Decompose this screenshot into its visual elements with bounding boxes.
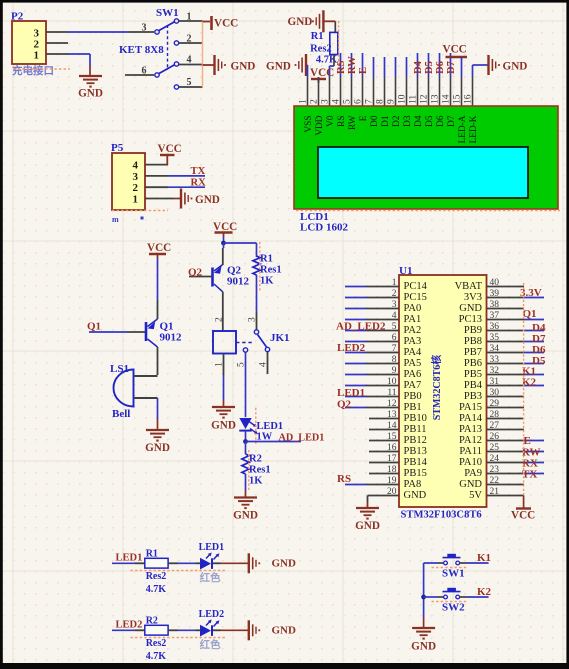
relay JK1 pin 5 number — [237, 362, 247, 367]
pin U1.13 — [369, 410, 399, 420]
svg-text:GND: GND — [272, 557, 297, 569]
junction at Q2 emitter node — [221, 241, 226, 246]
svg-text:LS1: LS1 — [110, 363, 129, 375]
svg-text:GND: GND — [195, 194, 220, 206]
svg-text:35: 35 — [490, 333, 500, 343]
svg-text:AD_LED1: AD_LED1 — [279, 433, 325, 444]
pin U1.4 — [345, 311, 399, 321]
svg-text:D1: D1 — [381, 115, 391, 127]
switch SW1 gang dashed link — [167, 25, 169, 70]
svg-text:4: 4 — [259, 362, 269, 367]
svg-text:13: 13 — [431, 94, 441, 104]
power VCC for Q2 — [213, 221, 237, 237]
LED LED1 red — [200, 553, 219, 570]
net label TX at U1 — [522, 469, 537, 481]
wire LS1 to ground — [157, 398, 159, 430]
svg-text:PA12: PA12 — [459, 435, 482, 446]
svg-text:RS: RS — [336, 60, 347, 74]
pin SW1.3 — [128, 23, 154, 34]
svg-text:LED-K: LED-K — [469, 115, 479, 143]
LCD pin names — [304, 115, 479, 143]
svg-text:D2: D2 — [392, 115, 402, 127]
svg-text:PA8: PA8 — [404, 479, 422, 490]
svg-text:LED2: LED2 — [116, 620, 143, 631]
svg-text:PB7: PB7 — [464, 347, 482, 358]
pin U1.39 — [487, 289, 545, 299]
svg-text:PB12: PB12 — [404, 435, 427, 446]
svg-text:10: 10 — [387, 377, 397, 387]
svg-text:D7: D7 — [447, 115, 457, 127]
svg-text:4: 4 — [332, 99, 342, 104]
svg-text:31: 31 — [490, 377, 500, 387]
resistor R1 Res2 — [330, 32, 338, 54]
svg-text:R1: R1 — [146, 548, 158, 559]
MCU U1 part number — [401, 510, 482, 521]
svg-text:D6: D6 — [436, 115, 446, 127]
pin U1.15 — [369, 432, 399, 442]
pin SW1.4 — [179, 55, 203, 66]
wire P2.1 to ground — [68, 54, 90, 76]
wire K2 right — [460, 596, 489, 598]
relay JK1 blade — [258, 335, 267, 348]
net label K1 at U1 — [522, 366, 536, 378]
svg-text:1: 1 — [133, 194, 139, 206]
pin P5.4 — [145, 164, 168, 166]
svg-text:VCC: VCC — [213, 221, 237, 233]
pin SW1.6 — [125, 66, 154, 77]
net label K1 — [477, 552, 491, 564]
svg-text:19: 19 — [387, 476, 397, 486]
svg-text:PA5: PA5 — [404, 358, 422, 369]
switch SW1 contact 4 — [174, 62, 178, 66]
svg-text:K2: K2 — [522, 377, 537, 389]
switch SW1 contact 5 — [174, 85, 178, 89]
svg-text:LED1: LED1 — [116, 553, 143, 564]
label 4.7K of bottom R1 — [146, 584, 167, 595]
svg-text:GND: GND — [233, 510, 258, 522]
transistor Q2 designator — [227, 265, 250, 288]
pin U1.37 — [487, 311, 545, 321]
pin U1.29 — [487, 399, 525, 409]
wire K1 left — [424, 562, 444, 564]
svg-text:11: 11 — [409, 95, 419, 104]
svg-text:R2: R2 — [249, 454, 262, 465]
wire VCC down to junction — [223, 237, 225, 244]
svg-text:29: 29 — [490, 399, 500, 409]
wire LED2 to ground — [213, 629, 249, 631]
svg-text:23: 23 — [490, 465, 500, 475]
svg-text:9: 9 — [392, 366, 397, 376]
svg-text:3: 3 — [142, 23, 147, 34]
svg-text:RS: RS — [337, 473, 351, 485]
net label D7 at U1 — [532, 333, 546, 345]
svg-text:Q2: Q2 — [337, 399, 352, 411]
wire AD_LED1 — [246, 441, 302, 443]
wire Q2 collector to coil — [222, 292, 224, 331]
transistor Q2 9012 PNP — [213, 265, 223, 292]
net label D4 at LCD — [413, 60, 424, 74]
svg-text:34: 34 — [490, 344, 500, 354]
svg-text:R1: R1 — [260, 254, 273, 265]
pin U1.33 — [487, 355, 545, 365]
svg-text:2: 2 — [133, 182, 139, 194]
selection marker beside R1 1K — [259, 242, 261, 292]
switch SW1 blade top — [159, 22, 175, 31]
svg-text:PC14: PC14 — [404, 281, 428, 292]
label Res2 of R1 — [310, 44, 332, 55]
net label RW at U1 — [522, 447, 541, 459]
net label D5 at LCD — [424, 61, 435, 74]
svg-text:4: 4 — [392, 311, 397, 321]
svg-text:GND: GND — [503, 61, 528, 73]
svg-text:1: 1 — [187, 12, 192, 23]
button SW1 designator — [432, 568, 469, 580]
wire LED1 to ground — [213, 562, 249, 564]
svg-text:2: 2 — [187, 34, 192, 45]
label R1 — [311, 31, 324, 42]
svg-text:LED-A: LED-A — [458, 115, 468, 143]
svg-text:4.7K: 4.7K — [146, 651, 167, 662]
label 充电接口 — [12, 64, 54, 77]
svg-text:PB6: PB6 — [464, 358, 482, 369]
label R1 bottom — [146, 548, 158, 559]
selection marker beside LED1 — [255, 408, 257, 444]
pin P5.3 — [145, 175, 168, 177]
resistor R1 Res2 body — [145, 558, 168, 568]
svg-text:Q1: Q1 — [523, 308, 537, 320]
label Res2 of bottom R1 — [146, 571, 167, 582]
button SW2 designator — [432, 602, 469, 614]
label 4.7K of R1 — [316, 55, 338, 66]
switch SW1 contact 3 — [155, 30, 159, 34]
connector P2 body — [12, 21, 46, 64]
svg-text:RX: RX — [191, 178, 207, 189]
svg-text:18: 18 — [387, 465, 397, 475]
svg-text:LCD 1602: LCD 1602 — [300, 222, 348, 234]
LED LED2 red — [200, 620, 219, 637]
label R2 bottom — [146, 615, 158, 626]
svg-text:3: 3 — [248, 317, 258, 322]
svg-text:GND: GND — [272, 624, 297, 636]
wire LCD pin16 to ground — [473, 65, 488, 77]
svg-text:LED2: LED2 — [337, 342, 366, 354]
svg-text:3V3: 3V3 — [464, 292, 482, 303]
switch SW1 contact 6 — [155, 73, 159, 77]
svg-text:红色: 红色 — [200, 638, 221, 651]
pin U1.1 — [345, 278, 399, 288]
svg-text:PA0: PA0 — [404, 303, 422, 314]
ground GND at LCD pin1 — [266, 54, 308, 76]
svg-text:D5: D5 — [425, 115, 435, 127]
pin U1.12 — [345, 399, 399, 409]
ground GND under LS1 — [145, 430, 170, 454]
svg-text:VDD: VDD — [315, 115, 325, 135]
pin P5.2 — [145, 186, 168, 188]
relay JK1 pin 3 number — [248, 317, 258, 322]
wire RX from P5.2 — [168, 186, 205, 188]
svg-text:30: 30 — [490, 388, 500, 398]
svg-text:3: 3 — [321, 99, 331, 104]
svg-text:16: 16 — [387, 443, 397, 453]
net label E at U1 — [524, 435, 531, 447]
switch SW1 designator — [156, 7, 179, 19]
pin U1.25 — [487, 443, 545, 453]
svg-text:VCC: VCC — [511, 510, 535, 522]
wire LED1 to node — [245, 431, 247, 442]
svg-text:25: 25 — [490, 443, 500, 453]
svg-text:PA14: PA14 — [459, 413, 483, 424]
wire LCD VSS — [307, 65, 309, 77]
diode LED1 designator — [257, 421, 284, 443]
svg-text:5: 5 — [392, 322, 397, 332]
relay JK1 coil pin 1 number — [215, 362, 225, 367]
net label D6 at U1 — [532, 344, 546, 356]
pin JK1.4 — [259, 352, 269, 374]
pin LS1.2 — [134, 397, 158, 399]
pin U1.30 — [487, 388, 525, 398]
svg-text:TX: TX — [522, 469, 537, 481]
connector P5 body — [112, 153, 145, 210]
pin U1.22 — [487, 476, 525, 486]
pin U1.21 — [487, 487, 525, 497]
svg-text:VCC: VCC — [147, 242, 171, 254]
label LCD 1602 — [300, 222, 348, 234]
svg-text:2: 2 — [310, 99, 320, 104]
wire TX from P5.3 — [168, 175, 205, 177]
ground GND at LED1 — [249, 553, 296, 573]
svg-text:PB3: PB3 — [464, 391, 482, 402]
svg-text:PB15: PB15 — [404, 468, 427, 479]
svg-text:14: 14 — [442, 94, 452, 104]
net label E at LCD — [358, 67, 369, 74]
svg-text:2: 2 — [215, 317, 225, 322]
wire R2 to LED2 — [168, 629, 200, 631]
label Res1 of R1 — [260, 265, 282, 276]
ground GND under P2 — [78, 76, 103, 100]
svg-text:GND: GND — [145, 442, 170, 454]
wire Q1 collector to LS1 — [157, 347, 159, 375]
svg-text:TX: TX — [191, 166, 206, 177]
svg-text:RS: RS — [337, 116, 347, 127]
wire coil to ground — [223, 354, 225, 407]
svg-text:1: 1 — [392, 278, 397, 288]
pin U1.11 — [345, 388, 399, 398]
net label Q2 — [188, 267, 203, 279]
LED LED1 designator — [199, 542, 225, 553]
pin U1.6 — [345, 333, 399, 343]
svg-text:PB1: PB1 — [404, 402, 422, 413]
wire junction to R1 1K — [224, 243, 257, 257]
svg-text:26: 26 — [490, 432, 500, 442]
pin U1.26 — [487, 432, 545, 442]
wire R1 to relay contact 3 — [256, 275, 258, 330]
svg-text:GND: GND — [404, 490, 427, 501]
svg-text:GND: GND — [211, 420, 236, 432]
power VCC at P5.4 — [158, 143, 182, 165]
svg-text:D6: D6 — [435, 61, 446, 74]
svg-text:PB10: PB10 — [404, 413, 427, 424]
svg-text:E: E — [358, 67, 369, 74]
svg-text:STM32C8T6核: STM32C8T6核 — [430, 355, 443, 421]
svg-text:5V: 5V — [469, 490, 482, 501]
svg-text:E: E — [524, 435, 531, 447]
net label TX at P5 — [191, 166, 206, 177]
ground GND under buttons — [411, 628, 436, 653]
power GND at SW1.4 — [203, 55, 256, 75]
net label Q1 wire — [89, 331, 146, 333]
svg-text:GND: GND — [288, 16, 313, 28]
svg-text:14: 14 — [387, 421, 397, 431]
pin U1.8 — [345, 355, 399, 365]
svg-text:4: 4 — [187, 55, 192, 66]
junction AD_LED1 node — [243, 439, 248, 444]
svg-text:7: 7 — [392, 344, 397, 354]
net label LED2 wire — [112, 629, 145, 631]
MCU U1 core label — [430, 355, 443, 421]
connector P5 pin numbers — [133, 160, 139, 206]
svg-text:V0: V0 — [326, 115, 336, 127]
svg-text:AD_LED2: AD_LED2 — [336, 321, 386, 333]
connector P2 designator — [11, 11, 24, 23]
label R2 — [249, 454, 262, 465]
svg-text:PA15: PA15 — [459, 402, 482, 413]
wire GND bus vertical — [423, 563, 425, 628]
svg-text:Res1: Res1 — [249, 465, 271, 476]
relay JK1 coil — [213, 331, 236, 354]
pin U1.20 — [368, 487, 400, 497]
label 红色 of LED2 — [200, 638, 221, 651]
net label D5 at U1 — [532, 355, 546, 367]
wire relay 5 to LED1 — [245, 353, 247, 418]
svg-text:Res2: Res2 — [310, 44, 332, 55]
svg-text:Q2: Q2 — [188, 267, 203, 279]
svg-text:Res1: Res1 — [260, 265, 282, 276]
svg-text:SW2: SW2 — [442, 602, 465, 614]
net label Q2 wire — [189, 276, 213, 278]
ground GND at LED2 — [249, 620, 296, 640]
svg-text:D5: D5 — [424, 61, 435, 74]
svg-text:PA13: PA13 — [459, 424, 482, 435]
net label Q2 at U1 — [337, 399, 352, 411]
wire K2 left — [424, 596, 444, 598]
svg-text:24: 24 — [490, 454, 500, 464]
pin U1.28 — [487, 410, 525, 420]
svg-text:D4: D4 — [414, 115, 424, 127]
label 1K of R1 — [260, 276, 274, 287]
svg-text:8: 8 — [392, 355, 397, 365]
label 1K of R2 — [249, 476, 263, 487]
power VCC at SW1.1 — [203, 16, 239, 30]
pin U1.9 — [345, 366, 399, 376]
svg-text:4.7K: 4.7K — [146, 584, 167, 595]
label Res1 of R2 — [249, 465, 271, 476]
svg-text:15: 15 — [387, 432, 397, 442]
speaker LS1 designator — [110, 363, 129, 375]
pin P2.3 — [46, 31, 68, 33]
svg-text:9: 9 — [387, 99, 397, 104]
label KET 8X8 — [119, 44, 164, 56]
svg-text:36: 36 — [490, 322, 500, 332]
svg-text:PC13: PC13 — [459, 314, 482, 325]
svg-text:12: 12 — [387, 399, 397, 409]
relay JK1 contact 3 — [254, 330, 258, 334]
power VCC at LCD pin2 — [310, 67, 334, 83]
ground GND above R1 — [288, 10, 336, 32]
pin U1.35 — [487, 333, 545, 343]
svg-text:33: 33 — [490, 355, 500, 365]
svg-text:1K: 1K — [249, 476, 263, 487]
pin SW1.2 — [179, 34, 203, 45]
svg-text:PB5: PB5 — [464, 369, 482, 380]
ground GND at P5.1 — [181, 189, 220, 209]
svg-text:39: 39 — [490, 289, 500, 299]
net label Q1 at U1 — [523, 308, 537, 320]
svg-text:2: 2 — [392, 289, 397, 299]
net label Q1 — [87, 321, 101, 333]
svg-text:37: 37 — [490, 311, 500, 321]
label Bell — [112, 408, 130, 420]
wire VCC to Q1 emitter — [157, 258, 159, 319]
svg-text:40: 40 — [490, 278, 500, 288]
label R1 of relay resistor — [260, 254, 273, 265]
svg-text:20: 20 — [387, 487, 397, 497]
svg-text:4: 4 — [133, 160, 139, 172]
svg-text:R2: R2 — [146, 615, 158, 626]
hidden marker under R2 — [131, 637, 227, 639]
svg-text:Bell: Bell — [112, 408, 130, 420]
svg-text:38: 38 — [490, 300, 500, 310]
wire LCD VDD — [318, 77, 320, 82]
svg-text:GND: GND — [78, 88, 103, 100]
svg-text:D4: D4 — [413, 60, 424, 74]
svg-text:LED2: LED2 — [199, 609, 225, 620]
svg-text:Res2: Res2 — [146, 571, 167, 582]
pin U1.16 — [369, 443, 399, 453]
svg-text:K2: K2 — [477, 586, 492, 598]
svg-text:R1: R1 — [311, 31, 324, 42]
wire U1 pin21 to VCC — [523, 496, 525, 509]
svg-text:LED1: LED1 — [257, 421, 284, 432]
selected wire marker right of SW1 — [202, 21, 204, 87]
ground GND under U1 — [355, 508, 380, 532]
pin U1.31 — [487, 377, 545, 387]
pin U1.7 — [345, 344, 399, 354]
selection marker beside R1 — [338, 21, 340, 70]
svg-text:PA3: PA3 — [404, 336, 422, 347]
svg-text:充电接口: 充电接口 — [12, 64, 54, 77]
resistor R2 Res1 1K zigzag — [242, 454, 249, 474]
pin SW1.1 — [179, 12, 203, 23]
net label LED1 bottom — [116, 553, 143, 564]
power VCC at U1 pin21 — [511, 509, 535, 522]
svg-text:3: 3 — [133, 171, 139, 183]
wire K1 right — [460, 562, 489, 564]
ground GND under JK1 coil — [211, 407, 236, 432]
svg-text:11: 11 — [387, 388, 396, 398]
pin U1.19 — [345, 476, 399, 486]
switch SW1 contact 1 — [174, 19, 178, 23]
label Res2 of bottom R2 — [146, 638, 167, 649]
svg-text:13: 13 — [387, 410, 397, 420]
hidden marker under R1 — [131, 570, 227, 572]
net label AD_LED1 — [279, 433, 325, 444]
svg-text:PB8: PB8 — [464, 336, 482, 347]
pin U1.5 — [345, 322, 399, 332]
svg-text:27: 27 — [490, 421, 500, 431]
svg-text:28: 28 — [490, 410, 500, 420]
pin U1.10 — [345, 377, 399, 387]
relay JK1 coil pin 2 number — [215, 317, 225, 322]
